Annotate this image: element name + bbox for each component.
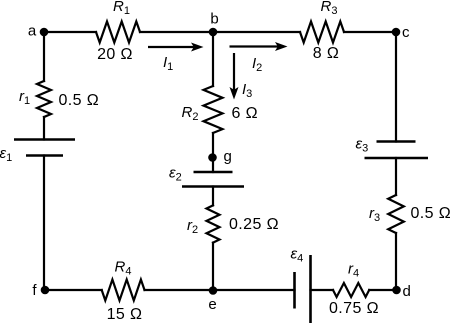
wire c to battery E3 (right branch) — [395, 32, 397, 142]
svg-text:6 Ω: 6 Ω — [232, 105, 259, 122]
battery E4 long plate — [309, 255, 312, 323]
svg-text:0.5 Ω: 0.5 Ω — [411, 205, 450, 222]
wire r2 to e — [212, 243, 214, 290]
wire R4 to e — [145, 289, 214, 291]
node f — [41, 286, 50, 295]
wire r1 to battery E1 — [43, 117, 45, 140]
wire battery E3 to r3 — [395, 158, 397, 195]
wire b to R2 (middle branch) — [212, 32, 214, 86]
battery E2 long plate — [182, 185, 244, 188]
wire battery E1 to f — [43, 156, 45, 291]
node d — [392, 286, 401, 295]
svg-text:g: g — [224, 148, 232, 165]
battery E3 long plate — [365, 157, 429, 160]
resistor r2 — [207, 205, 220, 242]
resistor R2 — [204, 86, 223, 133]
svg-text:0.75 Ω: 0.75 Ω — [329, 300, 379, 317]
node a — [40, 28, 49, 37]
battery E4 short plate — [293, 272, 296, 309]
current arrow I2 — [230, 42, 288, 51]
battery E3 short plate — [377, 140, 416, 143]
battery E1 long plate — [14, 138, 75, 141]
node c — [392, 28, 401, 37]
wire f to R4 (bottom left) — [44, 289, 102, 291]
node g — [208, 153, 217, 162]
svg-text:8 Ω: 8 Ω — [313, 45, 340, 62]
wire battery E2 to r2 — [212, 187, 214, 206]
resistor r3 — [388, 195, 404, 233]
wire e to battery E4 — [213, 289, 295, 291]
svg-text:e: e — [208, 296, 216, 313]
svg-text:d: d — [403, 283, 411, 300]
wire r4 to d — [369, 289, 396, 291]
battery E1 short plate — [26, 154, 63, 157]
wire b to R3 — [213, 31, 300, 33]
wire a to r1 (left branch) — [43, 32, 45, 81]
svg-text:a: a — [28, 22, 37, 39]
battery E2 short plate — [194, 171, 233, 174]
node b — [209, 28, 218, 37]
svg-text:0.25 Ω: 0.25 Ω — [229, 216, 279, 233]
wire battery E4 to r4 — [311, 289, 334, 291]
wire R2 to node g — [212, 133, 214, 172]
svg-text:c: c — [402, 24, 410, 41]
wire r3 to d — [395, 233, 397, 290]
wire a to R1 (top left) — [44, 31, 96, 33]
resistor R4 — [102, 280, 145, 301]
resistor R3 — [300, 22, 344, 43]
current arrow I3 — [230, 53, 239, 100]
current arrow I1 — [148, 43, 204, 52]
svg-text:15 Ω: 15 Ω — [107, 306, 143, 323]
svg-text:b: b — [210, 11, 218, 28]
wire R3 to c — [344, 31, 396, 33]
wire R1 to b — [140, 31, 213, 33]
node e — [209, 286, 218, 295]
resistor r4 — [333, 283, 369, 297]
resistor r1 — [37, 81, 51, 117]
svg-text:0.5 Ω: 0.5 Ω — [59, 92, 100, 109]
resistor R1 — [96, 22, 140, 43]
svg-text:20 Ω: 20 Ω — [97, 46, 133, 63]
